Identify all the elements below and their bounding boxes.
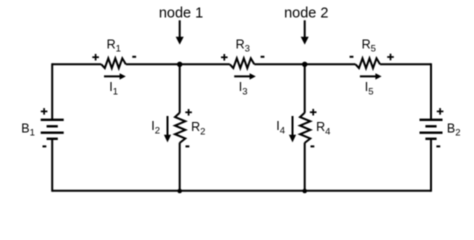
battery B1 plate short bottom	[47, 138, 58, 140]
battery B1 plate long top	[41, 119, 64, 121]
current arrow I5	[360, 73, 382, 79]
wire node1 upper	[179, 64, 181, 113]
current arrow I3	[234, 73, 256, 79]
wire node1 lower	[179, 143, 181, 191]
wire left lower	[51, 139, 53, 192]
resistor R1	[101, 58, 126, 68]
battery B2 plate short bottom	[425, 138, 436, 140]
wire top mid-right segment	[254, 63, 355, 65]
resistor R5	[356, 58, 381, 68]
wire bottom	[52, 190, 431, 192]
junction dot bottom right	[302, 189, 307, 194]
plus sign R2	[185, 109, 192, 116]
minus sign R3	[261, 56, 265, 58]
minus sign R4	[311, 145, 315, 147]
node 2 pointer arrow	[301, 20, 309, 44]
wire top left segment	[52, 63, 101, 65]
battery B2 plate long bottom	[420, 131, 443, 133]
current arrow I4	[289, 116, 296, 142]
node 1 junction dot top	[177, 62, 182, 67]
resistor R3	[230, 58, 255, 68]
current arrow I1	[104, 73, 126, 79]
node 1 pointer arrow	[176, 20, 184, 44]
junction dot bottom left	[177, 189, 182, 194]
wire node2 upper	[304, 64, 306, 113]
wire top right segment	[380, 63, 431, 65]
plus sign R4	[310, 109, 317, 116]
plus sign B1	[41, 108, 48, 115]
wire right upper	[430, 63, 432, 120]
wire top mid-left segment	[126, 63, 230, 65]
minus sign B2	[436, 145, 440, 147]
battery B2 plate long top	[420, 119, 443, 121]
minus sign B1	[43, 145, 47, 147]
battery B2 plate short	[425, 125, 436, 127]
plus sign R3	[221, 54, 228, 61]
current arrow I2	[164, 116, 171, 142]
wire right lower	[430, 139, 432, 192]
plus sign R5	[387, 54, 394, 61]
battery B1 plate long bottom	[41, 131, 64, 133]
resistor R4	[300, 113, 310, 143]
battery B1 plate short	[47, 125, 58, 127]
plus sign B2	[437, 108, 444, 115]
resistor R2	[175, 113, 185, 143]
plus sign R1	[92, 54, 99, 61]
svg-text:node 1: node 1	[159, 6, 203, 22]
minus sign R5	[350, 56, 354, 58]
wire node2 lower	[304, 143, 306, 191]
svg-text:node 2: node 2	[284, 6, 328, 22]
node 2 junction dot top	[302, 62, 307, 67]
minus sign R1	[132, 56, 136, 58]
minus sign R2	[186, 145, 190, 147]
wire left upper	[51, 63, 53, 120]
